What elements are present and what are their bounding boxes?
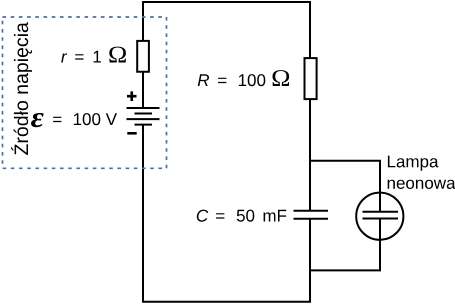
label Ω (r unit) <box>109 47 126 63</box>
capacitor C plate top <box>294 210 329 212</box>
battery plate long top <box>127 107 160 109</box>
minus sign of battery <box>127 132 136 135</box>
label r (internal resistance symbol) <box>61 53 67 62</box>
resistor r (internal resistance) <box>137 41 149 72</box>
plus sign of battery <box>127 91 137 101</box>
label value 100 (R) <box>239 74 265 86</box>
label = (R equation) <box>218 78 226 83</box>
wire: left branch up, top wire, right branch down to resistor R <box>143 2 310 59</box>
label R (resistor symbol) <box>198 74 209 86</box>
dashed box around voltage source <box>3 17 167 168</box>
battery plate short upper <box>135 113 153 115</box>
wire: neon branch bottom (lamp to junction) <box>310 219 380 271</box>
label = (emf equation) <box>53 117 61 122</box>
wire: battery to bottom-left corner, bottom wire, right branch up to capacitor <box>143 125 310 302</box>
label value 50 (C) <box>237 210 255 222</box>
label = (C equation) <box>216 213 224 218</box>
neon lamp circle <box>356 193 403 240</box>
label "Źródło napięcia" (voltage source, rotated) <box>11 22 32 155</box>
neon lamp electrode top <box>363 211 399 213</box>
label "neonowa" (neon lamp line 2) <box>388 180 455 189</box>
wire: resistor r to battery <box>142 71 144 108</box>
label C (capacitor symbol) <box>197 210 209 222</box>
label value 1 (r equation) <box>94 51 101 63</box>
battery plate long lower <box>127 118 160 120</box>
label "Lampa" (neon lamp line 1) <box>388 156 439 171</box>
label unit mF (C) <box>264 210 287 222</box>
neon lamp electrode bottom <box>363 218 399 220</box>
battery plate short bottom <box>135 124 153 126</box>
wire: resistor R down to capacitor top plate <box>309 99 311 211</box>
resistor R <box>305 58 317 99</box>
label ε (emf symbol) <box>31 113 44 127</box>
capacitor C plate bottom <box>294 218 329 220</box>
wire: neon branch top (junction to lamp) <box>310 161 380 212</box>
label = (r equation) <box>75 54 83 59</box>
label value 100 V (emf) <box>74 113 117 125</box>
label Ω (R unit) <box>273 70 290 86</box>
